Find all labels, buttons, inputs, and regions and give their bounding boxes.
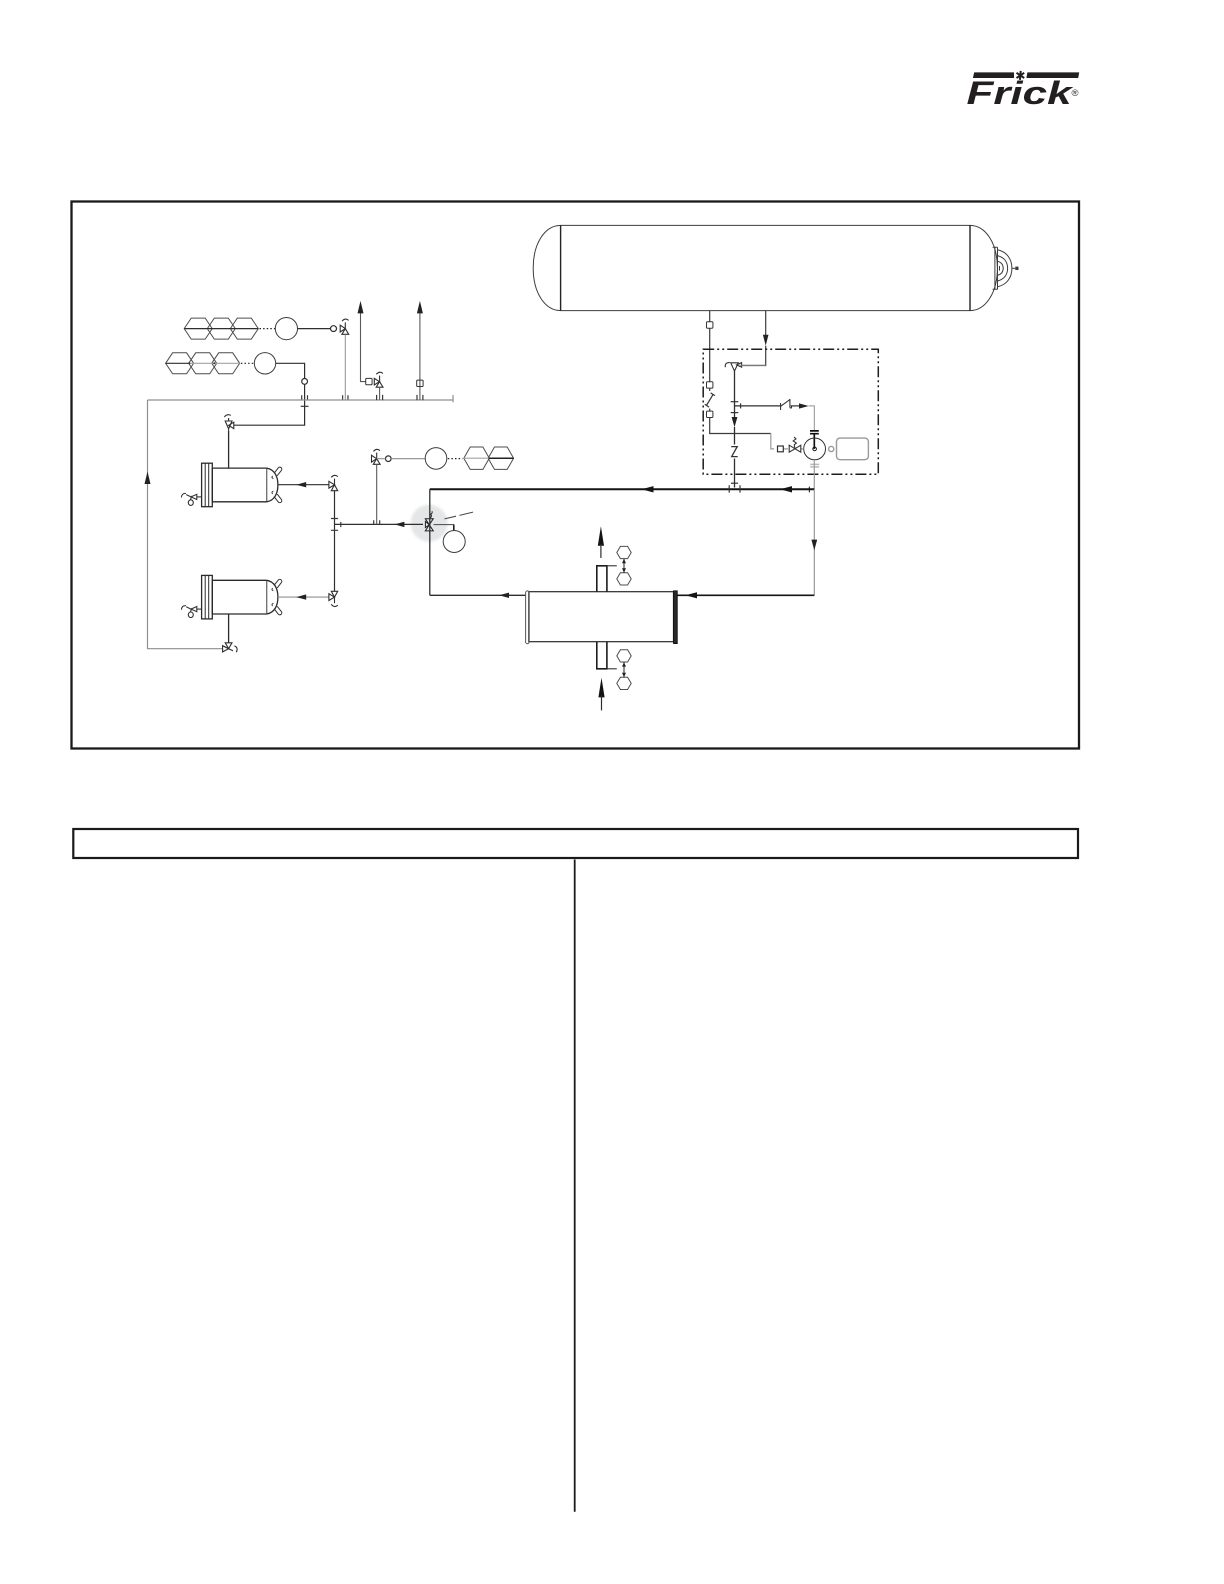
svg-text:®: ® bbox=[1072, 88, 1079, 99]
evaporator coil chain EC1 bbox=[184, 318, 258, 339]
pump coupling bbox=[829, 446, 834, 451]
wire G2 to drop at x=304.6 bbox=[234, 363, 305, 425]
branch corner down to pump bbox=[809, 406, 815, 430]
flow arrow down on right leg bbox=[811, 540, 817, 551]
solenoid square on drop leg bbox=[707, 322, 713, 328]
transfer wire tee to control valve bbox=[335, 523, 424, 525]
union ticks at AV1 joint bbox=[377, 395, 383, 400]
pump skid dash-dot boundary box bbox=[703, 349, 878, 474]
gauge stem tick bbox=[453, 525, 455, 531]
gauge leg angle valve bbox=[372, 449, 381, 464]
branch union tick bbox=[740, 403, 742, 408]
hand valve Z on center leg bbox=[731, 447, 738, 457]
solenoid square on vent 2 bbox=[417, 380, 423, 386]
HX bottom water arrow in bbox=[598, 678, 604, 698]
vessel B bottom angle valve bbox=[223, 643, 238, 652]
Frick logo top bar left segment bbox=[973, 72, 1014, 78]
HX left head flange bbox=[526, 591, 530, 644]
flow arrow left into exchanger bbox=[685, 592, 697, 598]
riser flow arrow up bbox=[145, 472, 151, 485]
heat exchanger HX body bbox=[529, 592, 674, 642]
tee riser between vessel valves bbox=[334, 491, 336, 592]
dotted link EC1 to gauge bbox=[260, 328, 276, 330]
vent line 2 with arrow bbox=[419, 313, 421, 400]
dotted link EC2 to gauge bbox=[241, 362, 254, 364]
gauge G4 bbox=[443, 531, 465, 553]
solenoid square on vent 1 bbox=[366, 378, 372, 384]
flow arrow left on transfer wire bbox=[394, 522, 404, 527]
gauge hookup wire bbox=[434, 525, 454, 531]
oil pot vessel A flange bbox=[202, 463, 213, 507]
relief angle valve RV1 bbox=[340, 319, 349, 334]
union ticks at RV1 manifold joint bbox=[343, 395, 348, 400]
vessel A bottom nozzle ear bbox=[274, 494, 283, 503]
union tick near pipe bbox=[731, 482, 738, 484]
union tick below tee bbox=[731, 412, 739, 414]
vessel B bottom nozzle ear bbox=[274, 606, 283, 615]
vent arrow 2 bbox=[417, 301, 423, 314]
receiver end manway fitting bbox=[993, 247, 1019, 289]
gauge G2 bbox=[254, 353, 275, 374]
flow arrow left on return pipe bbox=[642, 486, 654, 492]
HX right head flange bbox=[674, 591, 678, 644]
union ticks on tee riser bbox=[331, 519, 338, 531]
needle valve at pump suction bbox=[789, 437, 801, 452]
gauge G3 bbox=[425, 448, 447, 470]
vent line 1 with arrow bbox=[361, 313, 366, 382]
wire AV1 to manifold bbox=[379, 387, 381, 400]
solenoid square inside box on left leg bbox=[707, 382, 713, 388]
oil pot vessel B body bbox=[212, 580, 278, 614]
union ticks at vent2 joint bbox=[417, 395, 423, 400]
link wire between bottom hexagons bbox=[607, 662, 624, 677]
vessel B inlet globe valve bbox=[329, 591, 338, 606]
oil pot vessel A body bbox=[212, 468, 278, 502]
link wire between top hexagons bbox=[607, 559, 624, 573]
small orifice circle on drop bbox=[302, 379, 308, 385]
vessel A top angle valve bbox=[224, 415, 233, 429]
union ticks at gauge leg joint bbox=[374, 520, 380, 524]
wire G1 to valve bbox=[298, 328, 331, 330]
HX top water nozzle bbox=[597, 566, 607, 592]
vessel A outlet globe valve bbox=[329, 475, 338, 490]
callout leader line bbox=[445, 512, 474, 519]
union tick at discharge junction bbox=[808, 487, 810, 493]
union tick on transfer wire bbox=[340, 522, 342, 527]
pump top flange bbox=[810, 431, 819, 434]
schematic border frame bbox=[72, 202, 1080, 749]
pressure control valve CV1 bbox=[425, 511, 433, 531]
vent angle valve AV1 bbox=[374, 372, 383, 387]
evaporator coil chain EC3 bbox=[464, 447, 514, 469]
union tick above tee bbox=[731, 401, 739, 403]
receiver vessel V1 body bbox=[533, 225, 997, 310]
table header bar bbox=[73, 829, 1078, 858]
drop leg from receiver at x=765.7 with flow arrow bbox=[765, 311, 767, 336]
wire RV1 down to manifold bbox=[344, 334, 346, 400]
flow arrow right on branch bbox=[799, 403, 809, 408]
flow arrow down on center leg bbox=[732, 417, 738, 427]
svg-text:Frick: Frick bbox=[967, 75, 1075, 111]
strainer square on left leg bbox=[707, 411, 713, 417]
dotted link G3 to coil bbox=[448, 458, 463, 460]
pump motor M1 bbox=[837, 438, 869, 460]
liquid feed angle valve in box bbox=[725, 363, 741, 372]
wire from angle valve to drop leg bbox=[739, 364, 766, 366]
coil EC3 bold centerline bbox=[489, 457, 514, 459]
suction manifold header bbox=[148, 399, 454, 401]
small orifice circle bbox=[331, 326, 337, 332]
water hexagon bottom pair bbox=[617, 650, 631, 690]
left leg wire below valve bbox=[710, 388, 771, 433]
pump discharge wire down bbox=[813, 460, 815, 490]
loop left leg bbox=[429, 489, 431, 595]
union tick below manifold bbox=[301, 405, 309, 407]
vessel B inlet wire with flow arrow bbox=[278, 596, 329, 598]
loop right leg bbox=[813, 489, 815, 595]
pump P1 casing bbox=[804, 438, 826, 460]
gauge leg wire down bbox=[376, 464, 378, 524]
pump stem bbox=[813, 434, 815, 449]
small orifice circle bbox=[386, 456, 392, 462]
oil pot vessel B flange bbox=[202, 575, 213, 619]
Frick logo snowflake asterisk bbox=[1017, 71, 1025, 80]
Frick logo top bar right segment bbox=[1026, 72, 1079, 78]
gauge G1 bbox=[275, 318, 297, 340]
vessel B bottom outlet wire bbox=[228, 614, 230, 643]
pump discharge bottom flange bbox=[810, 464, 819, 467]
wire vessel A valve to manifold drop bbox=[228, 429, 230, 431]
flow arrow down bbox=[763, 335, 769, 346]
evaporator coil chain EC2 bbox=[166, 353, 240, 374]
pump suction wire bbox=[771, 434, 804, 449]
highlight halo behind control valve bbox=[411, 505, 448, 542]
drop leg from receiver at x=709.7 bbox=[709, 311, 711, 382]
HX bottom water nozzle bbox=[597, 642, 607, 669]
left riser wire bbox=[148, 400, 223, 649]
pump shaft center bbox=[813, 447, 817, 451]
main return pipe bbox=[430, 488, 815, 490]
exchanger outlet pipe with arrow bbox=[430, 594, 526, 596]
wire to gauge G3 bbox=[377, 458, 426, 460]
vessel A outlet wire with flow arrow bbox=[278, 484, 329, 486]
pipe to exchanger right nozzle bbox=[677, 594, 814, 596]
flow arrow left on return pipe near pump bbox=[780, 486, 792, 492]
suction strainer square bbox=[778, 446, 784, 452]
manifold end tick bbox=[452, 395, 454, 402]
hand expansion valve on left leg bbox=[705, 393, 715, 407]
HX top water arrow out bbox=[598, 526, 604, 546]
vessel A top outlet wire bbox=[228, 431, 230, 468]
union ticks at manifold crossing bbox=[302, 395, 308, 400]
vessel A left drain valve bbox=[181, 493, 201, 505]
vessel B top nozzle ear bbox=[274, 579, 283, 588]
table column divider bbox=[574, 860, 576, 1512]
vessel A top nozzle ear bbox=[274, 466, 283, 475]
union ticks at center leg junction bbox=[729, 485, 740, 492]
water hexagon top pair bbox=[617, 546, 631, 585]
vessel B left drain valve bbox=[181, 606, 201, 618]
pump bypass branch tee bbox=[735, 405, 781, 407]
vent arrow 1 bbox=[358, 301, 364, 314]
center leg below angle valve bbox=[734, 371, 736, 487]
check valve on branch bbox=[781, 399, 792, 410]
